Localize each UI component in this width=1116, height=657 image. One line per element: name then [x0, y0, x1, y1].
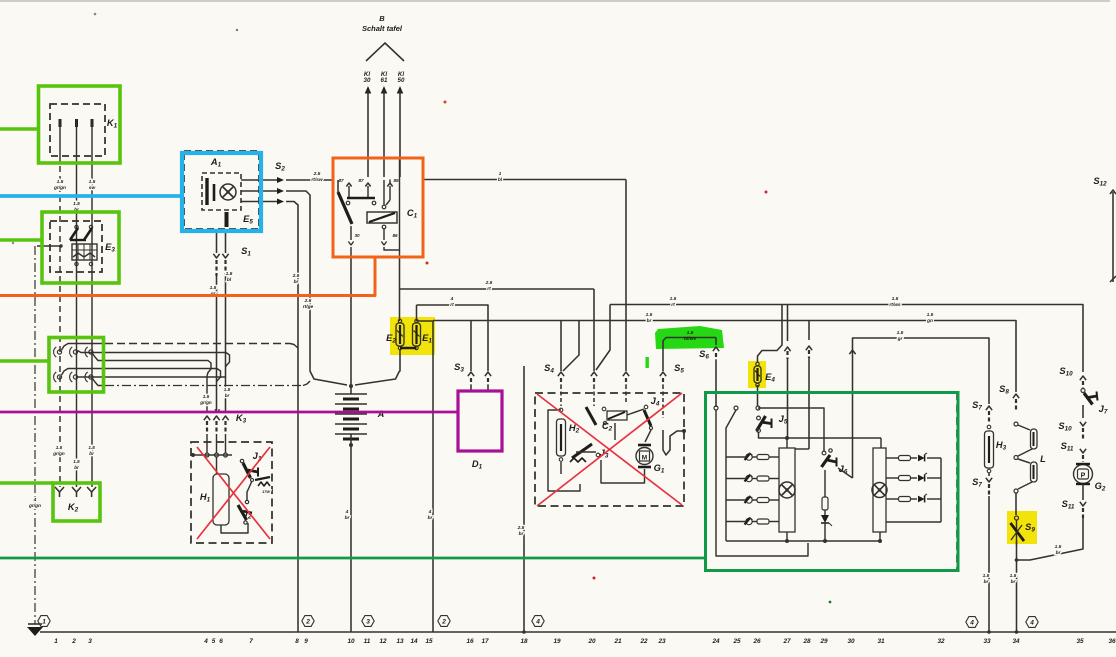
lamp rows right bus: [940, 458, 942, 522]
wire E3 left junction: [37, 245, 61, 247]
annotation green line to E3: [0, 238, 42, 242]
switch S9: [1015, 516, 1019, 520]
bundle wire 6 dash-dot: [93, 379, 106, 386]
svg-text:1.5: 1.5: [897, 330, 904, 336]
svg-text:1.5: 1.5: [687, 330, 694, 336]
svg-text:9: 9: [304, 638, 308, 645]
annotation green line to connector block: [0, 359, 49, 363]
A1 inner dashed box: [202, 173, 241, 210]
svg-text:bl/ws: bl/ws: [684, 336, 696, 342]
wire S2 middle down to battery: [286, 191, 347, 385]
wire E1 top link to br bus: [417, 320, 434, 323]
wire C1 30 down to battery apex: [350, 257, 352, 384]
svg-text:4: 4: [428, 509, 432, 515]
svg-text:1.5: 1.5: [88, 445, 95, 450]
svg-text:19: 19: [553, 638, 561, 645]
svg-text:4: 4: [450, 296, 454, 302]
svg-text:28: 28: [802, 638, 811, 645]
motor G1: [638, 444, 651, 447]
wire J6 from gr bus: [838, 468, 853, 478]
svg-text:3: 3: [88, 638, 92, 645]
switch J6: [822, 451, 826, 455]
relay C2 coil: [607, 411, 627, 420]
wire S2 middle from A1: [241, 190, 277, 192]
svg-text:5: 5: [212, 638, 216, 645]
connector K2 forks: [55, 487, 64, 492]
page edge line top: [0, 0, 1110, 2]
svg-text:8: 8: [295, 638, 299, 645]
flasher input contacts: [714, 406, 718, 410]
bus 1.5 rt: [610, 305, 1083, 373]
wire node to lamp rect: [786, 438, 788, 448]
svg-text:87: 87: [358, 178, 364, 183]
heater element L: [1014, 422, 1018, 426]
wiper unit dashed box: [535, 393, 684, 506]
svg-text:20: 20: [587, 638, 596, 645]
svg-text:34: 34: [1012, 638, 1020, 645]
lamp rows right: [886, 457, 899, 459]
resistor H1: [213, 474, 229, 525]
connector S4-2: [591, 372, 597, 376]
highlight E2 E1 fuses yellow: [390, 317, 435, 355]
svg-text:4: 4: [969, 620, 974, 627]
svg-text:15: 15: [425, 638, 433, 645]
svg-text:22: 22: [639, 638, 648, 645]
terminal badge 3: [362, 616, 374, 627]
relay K1 dashed box: [50, 104, 105, 156]
lamp cluster right rect: [873, 448, 886, 532]
wire drop from br bus to box: [808, 321, 810, 341]
wire S2 lower from A1: [241, 201, 277, 203]
diode below J6: [824, 510, 826, 515]
wire S2 lower down to terminal 9: [286, 202, 298, 633]
svg-text:rt: rt: [487, 286, 491, 292]
wire K1 right pin down to K2: [91, 156, 93, 487]
svg-text:rt/ws: rt/ws: [889, 302, 901, 308]
scan speck red 2: [426, 262, 429, 265]
wire S2 upper from A1: [241, 179, 277, 181]
lamp cluster left rect: [779, 448, 795, 532]
annotation orange box C1: [333, 158, 423, 257]
svg-text:gr/gn: gr/gn: [199, 400, 212, 405]
annotation green box E3: [42, 212, 119, 283]
stub S4-1 into box: [560, 385, 562, 406]
svg-text:2.5: 2.5: [292, 273, 300, 279]
wire E2 top to 2.5 rt bus: [399, 289, 401, 321]
annotation purple box D1: [458, 391, 502, 451]
svg-text:gr/gn: gr/gn: [53, 185, 66, 191]
svg-text:rt: rt: [450, 302, 454, 308]
wire 2.5 rt/sw to C1: [286, 179, 333, 181]
fuse E4: [756, 362, 759, 365]
svg-text:1.5: 1.5: [57, 179, 64, 185]
svg-text:1.5: 1.5: [73, 459, 80, 464]
annotation green box K1: [39, 86, 121, 163]
svg-text:A: A: [377, 409, 385, 419]
svg-text:30: 30: [847, 638, 855, 645]
wire G2 to S9 column: [1017, 518, 1084, 560]
A1 internal bars and lamp: [205, 178, 208, 205]
svg-text:2.5: 2.5: [485, 280, 493, 286]
svg-text:sw: sw: [89, 186, 96, 191]
wire K1 left pin down to K2 dashed: [59, 156, 61, 487]
svg-text:11: 11: [364, 638, 371, 645]
fuse bottom link: [400, 347, 417, 349]
resistor H2: [559, 408, 563, 412]
bundle wire 1 dashed: [62, 344, 106, 351]
terminal badge 2a: [302, 616, 314, 627]
svg-text:6: 6: [219, 638, 223, 645]
wire ground lead dash-dot left: [34, 246, 36, 624]
wire 1.5 bl/ws highlighted: [666, 337, 716, 339]
svg-text:21: 21: [613, 638, 622, 645]
svg-text:30: 30: [354, 233, 360, 238]
scan speck red 1: [444, 101, 447, 104]
svg-text:1: 1: [499, 171, 502, 177]
relay C2 arm: [586, 407, 596, 425]
annotation purple line to D1: [0, 411, 458, 414]
svg-text:br: br: [89, 451, 94, 456]
svg-text:4: 4: [535, 619, 540, 626]
wire S1 right down to K3: [222, 254, 228, 258]
lamp rows left: [746, 454, 752, 460]
bus 4 rt: [417, 305, 489, 371]
svg-text:24: 24: [711, 638, 720, 645]
svg-text:P: P: [1081, 473, 1086, 480]
connector K3-2: [213, 416, 219, 420]
svg-text:1.5: 1.5: [56, 445, 63, 450]
wire G1 bottom loop: [601, 460, 645, 483]
wire input 3 right to J6: [758, 408, 824, 451]
svg-text:36: 36: [1108, 638, 1116, 645]
svg-text:br: br: [225, 393, 230, 398]
connector S3 right: [485, 372, 491, 376]
scan speck gray: [236, 29, 238, 31]
svg-text:85: 85: [393, 178, 399, 183]
svg-text:13: 13: [396, 638, 404, 645]
svg-text:2.5: 2.5: [313, 171, 321, 177]
svg-text:gr/gn: gr/gn: [28, 503, 41, 509]
terminal strip baseline: [40, 631, 1116, 633]
wire 1 bl C1 to S4: [423, 179, 626, 181]
highlight S9 switch yellow: [1007, 511, 1037, 544]
ground symbol main: [27, 627, 43, 636]
terminal badge 1: [38, 616, 50, 627]
svg-text:50: 50: [398, 77, 405, 84]
terminal badge 4c: [1026, 617, 1038, 628]
chevron to Schalttafel: [366, 43, 404, 61]
annotation dark green line to flasher: [0, 557, 706, 560]
pump motor G2: [1074, 465, 1093, 484]
svg-text:1.5: 1.5: [1055, 544, 1062, 550]
svg-text:4: 4: [345, 509, 349, 515]
svg-text:16: 16: [466, 638, 474, 645]
wire H2 bottom to box: [547, 490, 549, 492]
bundle wire 3: [93, 354, 212, 377]
H1 internal wires: [221, 523, 248, 533]
svg-text:17: 17: [481, 638, 489, 645]
svg-text:bl: bl: [227, 277, 232, 283]
terminal badge 4b: [966, 617, 978, 628]
connector S4-1: [558, 372, 564, 376]
bundle wire 4: [62, 369, 221, 383]
svg-text:2: 2: [71, 638, 76, 645]
svg-text:1.5: 1.5: [1010, 573, 1017, 579]
wire L to S9: [1015, 493, 1017, 515]
resistor below J6: [824, 470, 826, 497]
relay C1 switch arm: [338, 192, 352, 224]
wire battery to terminal 10: [350, 445, 352, 632]
svg-text:2: 2: [305, 619, 310, 626]
svg-text:17W: 17W: [262, 490, 270, 494]
wire H2 left loop: [548, 410, 580, 491]
highlight E4 fuse yellow: [748, 361, 766, 388]
svg-text:4: 4: [1029, 620, 1034, 627]
svg-text:1.5: 1.5: [89, 179, 96, 185]
bundle wire 2: [78, 351, 230, 368]
control unit A1 dashed box: [184, 151, 259, 229]
svg-text:33: 33: [983, 638, 991, 645]
E3 heater element block: [72, 244, 97, 260]
svg-text:br: br: [74, 465, 79, 470]
svg-text:1.5: 1.5: [646, 312, 653, 318]
bus 1.5 gr: [853, 338, 990, 404]
wire J5 to node: [759, 432, 788, 438]
svg-text:7: 7: [249, 638, 253, 645]
annotation cyan line to A1: [0, 194, 182, 198]
svg-text:L: L: [1040, 454, 1046, 464]
wire S9 to terminal 34: [1016, 541, 1018, 632]
svg-text:29: 29: [819, 638, 828, 645]
wire E4 to J5: [757, 385, 759, 406]
svg-text:14: 14: [410, 638, 418, 645]
annotation green line to K2: [0, 481, 53, 485]
wire C1 86 down through E2 to battery: [399, 257, 401, 289]
bus 2.5 rt: [400, 288, 595, 290]
flasher bottom bus: [726, 540, 880, 542]
wire K1 mid pin down to K2: [76, 156, 78, 487]
svg-text:23: 23: [657, 638, 666, 645]
svg-text:4: 4: [203, 638, 208, 645]
svg-text:18: 18: [520, 638, 528, 645]
annotation cyan box A1: [182, 153, 261, 231]
svg-text:1.5: 1.5: [670, 296, 677, 302]
wire Kl61 to C1: [381, 86, 387, 94]
flasher unit dashed box: [706, 393, 957, 570]
svg-text:2.5: 2.5: [517, 525, 525, 531]
bundle wire 5: [78, 376, 226, 378]
wire C2 to J4: [627, 409, 644, 415]
fuse E5: [225, 212, 229, 227]
svg-text:M: M: [642, 455, 647, 462]
wire K3-1 column: [206, 376, 208, 412]
annotation orange line to C1: [0, 257, 375, 296]
scan speck red 4: [765, 191, 768, 194]
svg-text:bl: bl: [498, 177, 503, 183]
connector S4-3: [623, 372, 629, 376]
svg-text:32: 32: [937, 638, 945, 645]
wire J4 to G1: [645, 430, 651, 442]
highlight tick green: [646, 357, 649, 368]
svg-text:3: 3: [366, 619, 370, 626]
svg-text:1.5: 1.5: [73, 201, 80, 207]
svg-text:61: 61: [381, 77, 388, 84]
svg-text:Schalt tafel: Schalt tafel: [362, 24, 403, 33]
svg-text:1.5: 1.5: [203, 394, 210, 399]
connector K3-3: [222, 416, 228, 420]
svg-text:87: 87: [338, 178, 344, 183]
svg-text:1.5: 1.5: [983, 573, 990, 579]
fuse E1: [415, 319, 418, 322]
switch J3 cluster: [572, 444, 592, 458]
connector K3-1: [204, 416, 210, 420]
battery A funnel: [355, 371, 400, 385]
annotation green box connector block: [49, 338, 104, 393]
scan speck green: [829, 601, 832, 604]
wire drop to lamp unit: [787, 305, 789, 342]
annotation green line to K1: [0, 127, 39, 131]
svg-text:gn: gn: [926, 319, 933, 324]
scan speck red 3: [593, 577, 596, 580]
red cross over wiper unit: [537, 394, 682, 505]
switch J5: [757, 416, 761, 420]
terminal badge 2b: [438, 616, 450, 627]
svg-text:1: 1: [42, 619, 46, 626]
wire E2 bottom to battery funnel: [399, 350, 402, 371]
wire Kl50 to C1: [397, 86, 403, 94]
wire input 1 down: [716, 410, 808, 556]
svg-text:86: 86: [392, 233, 398, 238]
highlight wire 1.5 bl/ws green: [655, 326, 724, 349]
svg-text:31: 31: [877, 638, 885, 645]
red cross over heater unit: [197, 447, 270, 539]
svg-text:30: 30: [364, 77, 371, 84]
bus 1.5 br long: [433, 321, 1016, 393]
annotation dark green box flasher: [706, 393, 959, 571]
fuse E2: [398, 319, 401, 322]
svg-text:35: 35: [1076, 638, 1084, 645]
E3 switch contacts: [75, 225, 78, 228]
svg-text:26: 26: [752, 638, 761, 645]
wire Kl30 to C1: [365, 86, 371, 94]
terminal badge 4a: [532, 616, 544, 627]
sensor hook wire: [663, 430, 684, 455]
load D1 connections: [470, 385, 472, 391]
svg-text:gr/gn: gr/gn: [52, 451, 65, 456]
svg-text:1.5: 1.5: [226, 271, 233, 277]
annotation green box K2: [53, 483, 100, 521]
wire E1 top to 4 rt bus: [416, 305, 418, 321]
relay C1 contact bridge: [347, 197, 375, 200]
wire input 2 diagonal: [726, 410, 736, 541]
svg-text:25: 25: [732, 638, 741, 645]
wire E4 jog to rt bus: [758, 305, 783, 363]
regulator E3 dashed box: [50, 221, 102, 272]
svg-text:B: B: [379, 14, 385, 23]
wire H3 to terminal 33: [988, 496, 990, 632]
svg-text:1: 1: [54, 638, 58, 645]
relay C1 coil: [367, 212, 397, 223]
H1 terminals: [191, 453, 195, 457]
svg-text:rt/ge: rt/ge: [303, 304, 314, 310]
stub S5 into box: [662, 385, 664, 418]
svg-text:1.5: 1.5: [892, 296, 899, 302]
wire E1 column to terminal 15: [432, 321, 434, 633]
heater unit H1 dashed box: [191, 442, 272, 543]
J1 contact detail: [255, 477, 270, 480]
connector row 2: [57, 375, 61, 379]
stub S4-3 into box: [625, 385, 627, 404]
svg-text:10: 10: [347, 638, 355, 645]
switch J7: [1081, 389, 1085, 393]
svg-text:1.5: 1.5: [210, 285, 217, 291]
wire node bus right: [787, 437, 881, 439]
connector S3 left: [468, 372, 474, 376]
stub S4-2 into box: [593, 385, 595, 406]
svg-text:1.5: 1.5: [224, 387, 231, 392]
wire 2.5 br to terminal 18: [523, 366, 525, 632]
svg-text:2: 2: [441, 619, 446, 626]
resistor H3: [987, 425, 991, 429]
relay C1 86 loop wire: [384, 247, 400, 257]
svg-text:12: 12: [379, 638, 387, 645]
wire S1 left down to K3: [213, 254, 219, 258]
svg-text:27: 27: [782, 638, 791, 645]
svg-text:4: 4: [33, 497, 37, 503]
connector row 1: [57, 350, 61, 354]
svg-text:2.5: 2.5: [304, 298, 312, 304]
svg-text:1.5: 1.5: [927, 312, 934, 318]
svg-text:rt: rt: [671, 302, 675, 308]
K1 pin stubs: [59, 119, 62, 127]
svg-text:rt/sw: rt/sw: [311, 177, 322, 183]
battery A cells: [350, 386, 352, 394]
